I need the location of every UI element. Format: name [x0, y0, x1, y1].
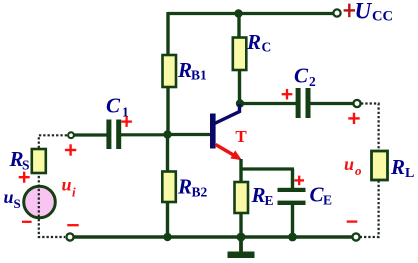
svg-text:C: C — [262, 40, 272, 55]
node collector — [236, 99, 244, 107]
svg-text:E: E — [323, 193, 332, 208]
plus input — [65, 149, 76, 151]
capacitor C2 — [296, 88, 301, 118]
node RB2 bottom — [163, 233, 171, 241]
capacitor C1 — [106, 120, 111, 150]
resistor RL — [372, 151, 388, 180]
wire bottom rail — [74, 235, 352, 239]
svg-text:E: E — [265, 193, 274, 208]
transistor T emitter lead with arrow — [216, 145, 234, 155]
node RE bottom — [237, 233, 246, 242]
wire RC lower to collector — [238, 70, 241, 103]
svg-text:U: U — [355, 0, 373, 24]
plus C1 — [121, 120, 132, 122]
svg-text:o: o — [355, 163, 362, 178]
wire RE lower — [239, 213, 242, 237]
wire collector to C2 — [240, 102, 296, 105]
wire CE upper — [291, 169, 294, 189]
source circle uS — [24, 186, 56, 218]
label +UCC — [344, 9, 355, 11]
wire C2 to output terminal — [310, 102, 354, 105]
wire base — [167, 133, 213, 136]
node RC top — [234, 9, 242, 17]
wire C1 to base node — [121, 133, 167, 136]
plus output — [348, 117, 359, 119]
resistor RB1 — [163, 55, 177, 87]
wire input to C1 — [75, 133, 108, 136]
dotted input loop — [39, 135, 67, 237]
svg-text:i: i — [72, 185, 76, 200]
svg-text:T: T — [235, 127, 247, 146]
wire RB2 upper — [166, 134, 169, 173]
node CE bottom — [288, 233, 297, 242]
terminal output top — [353, 100, 360, 107]
transistor T collector lead — [215, 104, 240, 124]
resistor RS — [32, 149, 46, 173]
wire top rail — [168, 12, 334, 15]
transistor T base bar — [210, 114, 216, 149]
svg-text:u: u — [344, 154, 354, 174]
svg-text:B1: B1 — [191, 68, 207, 83]
wire RB1 lower — [166, 87, 169, 134]
wire emitter vertical — [239, 159, 242, 183]
dotted output loop — [360, 104, 379, 238]
svg-text:L: L — [405, 166, 414, 181]
minus output — [347, 220, 358, 222]
plus CE — [294, 179, 304, 181]
svg-text:C: C — [106, 94, 121, 118]
svg-text:CC: CC — [372, 9, 393, 25]
terminal +Ucc — [333, 9, 340, 16]
wire CE lower — [291, 204, 294, 237]
minus input — [67, 224, 78, 226]
svg-text:R: R — [177, 175, 192, 199]
ground — [239, 237, 243, 253]
resistor RB2 — [162, 172, 176, 203]
wire RB1 branch upper — [166, 12, 169, 56]
plus C2 left — [282, 93, 293, 95]
svg-text:R: R — [251, 183, 266, 207]
svg-text:R: R — [177, 58, 192, 82]
svg-text:u: u — [4, 187, 14, 207]
node base junction — [163, 130, 171, 138]
terminal input top — [68, 132, 74, 138]
svg-text:2: 2 — [309, 74, 316, 89]
terminal input bottom — [66, 233, 73, 240]
wire RB2 lower — [166, 202, 169, 237]
wire emitter horizontal to CE — [241, 167, 294, 170]
minus source — [22, 221, 32, 223]
svg-text:R: R — [390, 155, 405, 179]
plus source — [19, 176, 30, 178]
capacitor CE — [278, 188, 306, 192]
svg-text:C: C — [294, 64, 309, 88]
svg-text:u: u — [62, 175, 72, 195]
svg-text:S: S — [14, 196, 21, 211]
svg-text:B2: B2 — [192, 185, 208, 200]
svg-text:R: R — [246, 30, 261, 54]
resistor RE — [235, 182, 249, 213]
svg-text:S: S — [22, 158, 30, 173]
wire RC upper — [237, 14, 240, 40]
resistor RC — [233, 38, 247, 71]
terminal output bottom — [352, 233, 359, 240]
